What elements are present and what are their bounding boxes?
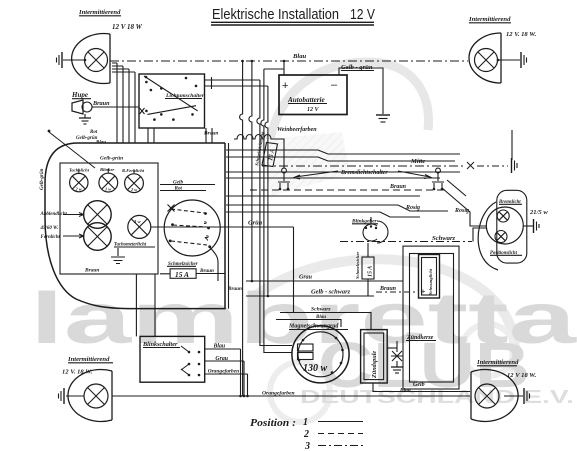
svg-text:–: – — [331, 79, 338, 91]
svg-text:Gelb - schwarz: Gelb - schwarz — [311, 289, 351, 296]
svg-text:1 w: 1 w — [105, 187, 111, 192]
svg-text:Hupe: Hupe — [71, 91, 88, 99]
svg-text:Grau: Grau — [299, 275, 313, 281]
svg-text:Braun: Braun — [389, 184, 407, 190]
svg-text:Elektrische Installation: Elektrische Installation — [212, 7, 339, 23]
svg-text:Autobatterie: Autobatterie — [287, 96, 326, 104]
svg-text:15 A: 15 A — [368, 266, 374, 277]
svg-text:Blau: Blau — [213, 344, 226, 350]
svg-text:+: + — [282, 80, 288, 92]
svg-text:Rosig: Rosig — [405, 205, 420, 211]
svg-text:Bremslichtschalter: Bremslichtschalter — [340, 170, 388, 176]
svg-text:12 V: 12 V — [307, 107, 320, 113]
svg-text:Weinbeerfarben: Weinbeerfarben — [277, 127, 317, 133]
svg-text:Grün: Grün — [248, 220, 263, 227]
svg-text:DEUTSCHLAND E.V.: DEUTSCHLAND E.V. — [300, 387, 574, 407]
svg-text:12 V: 12 V — [350, 7, 375, 23]
svg-text:Position :: Position : — [250, 418, 296, 429]
svg-text:Intermittierend: Intermittierend — [78, 9, 121, 16]
svg-text:Zündspule: Zündspule — [371, 351, 378, 379]
svg-text:Gelb: Gelb — [413, 382, 425, 388]
svg-text:2 w: 2 w — [130, 187, 137, 192]
svg-text:Rot: Rot — [90, 130, 98, 135]
svg-text:15 A: 15 A — [175, 270, 189, 279]
svg-text:1: 1 — [303, 417, 308, 428]
svg-text:Braun: Braun — [92, 100, 110, 107]
svg-text:Blau: Blau — [399, 388, 411, 394]
svg-text:12 V 18 W: 12 V 18 W — [112, 23, 143, 31]
svg-text:21/5 w: 21/5 w — [529, 209, 548, 216]
svg-text:Schwarz: Schwarz — [311, 307, 331, 313]
svg-text:3: 3 — [304, 441, 310, 451]
svg-text:Gelb-grün: Gelb-grün — [100, 156, 123, 162]
svg-text:Blinker: Blinker — [99, 167, 115, 172]
svg-text:Schmelzsicher: Schmelzsicher — [355, 251, 360, 279]
svg-text:Grau: Grau — [215, 356, 228, 362]
svg-text:Mitte: Mitte — [410, 158, 425, 165]
svg-text:Tacholicht: Tacholicht — [69, 168, 90, 173]
svg-text:Intermittierend: Intermittierend — [67, 356, 110, 363]
svg-text:2: 2 — [303, 429, 309, 440]
svg-text:12 V 18 W.: 12 V 18 W. — [507, 372, 537, 379]
svg-text:Intermittierend: Intermittierend — [476, 359, 519, 366]
svg-text:45/60 W.: 45/60 W. — [40, 226, 59, 231]
svg-text:Gelb-grün: Gelb-grün — [76, 136, 98, 141]
svg-text:12 V. 18 W.: 12 V. 18 W. — [506, 31, 537, 38]
svg-text:+: + — [421, 286, 426, 296]
svg-text:Orangefarben: Orangefarben — [208, 369, 239, 375]
svg-text:Fernlicht: Fernlicht — [41, 235, 61, 240]
svg-text:Schwunglicht: Schwunglicht — [428, 268, 433, 295]
svg-text:Blau: Blau — [292, 53, 307, 60]
svg-text:130 w: 130 w — [303, 363, 328, 374]
svg-text:Braun: Braun — [379, 286, 397, 292]
svg-text:Intermittierend: Intermittierend — [468, 16, 511, 23]
svg-text:Braun: Braun — [227, 286, 242, 292]
svg-text:Braun: Braun — [203, 131, 218, 137]
svg-text:Braun: Braun — [84, 268, 99, 274]
svg-text:R.Fernlicht: R.Fernlicht — [122, 168, 145, 173]
svg-text:Blau: Blau — [95, 141, 106, 146]
svg-text:Gelb-grün: Gelb-grün — [40, 168, 45, 190]
